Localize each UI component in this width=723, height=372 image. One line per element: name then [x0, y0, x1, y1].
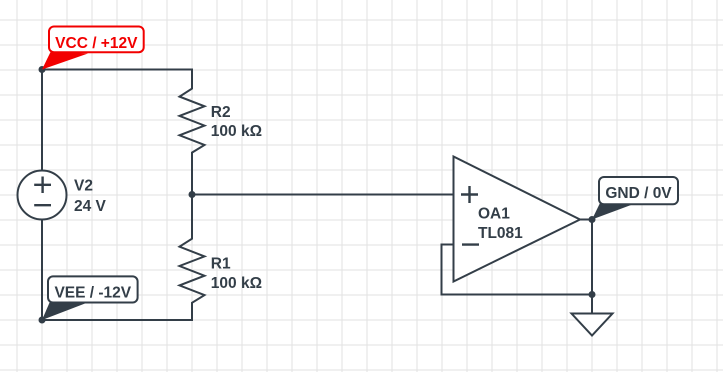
svg-text:V2: V2: [74, 178, 93, 195]
node VEE junction dot: [39, 317, 46, 324]
op-amp - input symbol: [462, 243, 479, 245]
wire middle horizontal to op-amp + input: [192, 194, 454, 196]
node output junction dot: [589, 216, 596, 223]
svg-text:R1: R1: [211, 256, 231, 273]
wire feedback vertical: [441, 245, 443, 295]
wire bottom horizontal VEE rail: [42, 319, 192, 321]
flag VEE / -12V: [42, 276, 138, 320]
svg-text:GND / 0V: GND / 0V: [605, 185, 672, 202]
svg-text:24 V: 24 V: [74, 198, 107, 215]
flag GND / 0V: [592, 177, 678, 220]
wire left vertical from V2 bottom to VEE node: [41, 220, 43, 321]
wire feedback horizontal to output node: [442, 294, 593, 296]
wire left vertical from VCC node to V2 top: [41, 70, 43, 171]
svg-text:TL081: TL081: [478, 225, 523, 242]
op-amp + input symbol: [461, 186, 478, 203]
svg-text:100 kΩ: 100 kΩ: [211, 123, 262, 140]
wire top horizontal VCC rail: [42, 69, 192, 71]
node middle junction dot: [189, 191, 196, 198]
svg-text:VEE / -12V: VEE / -12V: [54, 285, 131, 302]
op-amp OA1: [454, 157, 581, 282]
node feedback junction dot: [589, 291, 596, 298]
resistor R2: [180, 70, 205, 195]
wire output stub from apex to node: [580, 219, 592, 221]
node VCC junction dot: [39, 66, 46, 73]
svg-text:100 kΩ: 100 kΩ: [211, 275, 262, 292]
ground symbol: [572, 314, 613, 336]
resistor R1: [180, 195, 205, 321]
svg-text:R2: R2: [211, 104, 231, 121]
svg-text:VCC / +12V: VCC / +12V: [55, 35, 138, 52]
flag VCC / +12V: [42, 27, 144, 70]
wire output vertical from apex to ground: [591, 220, 593, 314]
voltage source V2: [18, 171, 67, 220]
wire op-amp inverting input stub: [442, 244, 454, 246]
svg-text:OA1: OA1: [478, 206, 510, 223]
